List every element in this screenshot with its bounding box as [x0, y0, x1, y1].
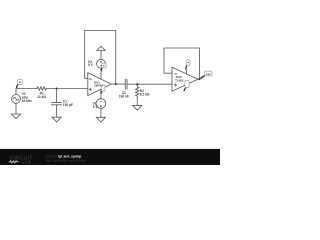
probe flag at OA1 V- pin	[100, 85, 105, 94]
op-amp OA1 triangle	[88, 73, 112, 96]
label OA2	[175, 75, 184, 82]
svg-text:30 kHz: 30 kHz	[22, 99, 33, 103]
wire C1 to ground	[56, 105, 58, 117]
label C2	[119, 91, 129, 98]
OA1 feedback wire	[85, 31, 116, 85]
wire V1 to R1	[16, 88, 37, 90]
svg-text:100 nF: 100 nF	[119, 94, 129, 98]
wire V2 bottom	[100, 108, 102, 117]
label C1	[63, 100, 73, 107]
svg-text:LM741: LM741	[94, 84, 103, 88]
OA1 plus input mark	[89, 88, 91, 90]
wire V3 top to supply arrow	[100, 50, 102, 59]
OA1 V+ supply pin wire	[100, 68, 102, 79]
svg-text:http://circuitlab.com/c79j426: http://circuitlab.com/c79j426	[46, 159, 87, 163]
svg-text:TL082: TL082	[175, 78, 184, 82]
op-amp OA2 triangle	[172, 67, 198, 91]
ground under C1	[52, 117, 61, 122]
node junction OA2 feedback/output	[198, 78, 200, 80]
probe balloon at OA2 V+ pin	[185, 60, 190, 70]
OA2 feedback wire	[164, 48, 199, 79]
label OA1	[94, 80, 103, 87]
wire R2 to ground	[136, 96, 138, 105]
wire R1 to OA1 plus input	[46, 88, 88, 90]
wire V1 bottom	[15, 103, 17, 114]
wire node to R2	[136, 84, 138, 87]
OA1 output wire to C2	[111, 83, 125, 85]
label R1	[37, 91, 46, 98]
ground under R2	[133, 105, 142, 110]
svg-text:8.2 kΩ: 8.2 kΩ	[140, 92, 150, 96]
wire V1 top	[15, 89, 17, 95]
OA2 minus input mark	[175, 73, 177, 75]
wire node to capacitor C1	[56, 89, 58, 103]
node junction OA1 feedback/output	[115, 83, 117, 85]
watermark bar	[0, 149, 220, 165]
probe balloon at V1 node	[16, 80, 23, 89]
ground under V2	[96, 117, 105, 122]
wire C2 to OA2 plus input	[127, 83, 172, 85]
probe flag at OA2 V- pin	[183, 81, 189, 92]
probe balloon at OA1 V+ pin	[101, 63, 107, 71]
OA1 minus input mark	[89, 78, 91, 80]
capacitor C1	[52, 103, 62, 105]
logo resistor zigzag	[9, 161, 19, 163]
label V1	[22, 92, 33, 103]
label R2	[140, 89, 150, 96]
label V3	[88, 60, 94, 67]
OA2 plus input mark	[175, 84, 177, 86]
svg-text:11 kΩ: 11 kΩ	[37, 95, 46, 99]
out net balloon at OA2 output	[200, 71, 212, 79]
node junction R1/C1	[56, 87, 58, 89]
label V2	[93, 101, 99, 108]
node junction C2/R2	[136, 83, 138, 85]
voltage source V3	[97, 59, 106, 68]
supply arrow above V3	[97, 46, 105, 50]
voltage source V2	[96, 99, 106, 109]
voltage source V1 (sine)	[12, 95, 21, 104]
svg-text:LAB: LAB	[22, 159, 31, 164]
OA1 V- supply pin wire	[100, 89, 102, 98]
OA2 V+ supply pin stub	[185, 71, 187, 74]
resistor R1	[37, 87, 46, 90]
OA2 output stub	[198, 78, 199, 80]
capacitor C2	[125, 79, 127, 89]
resistor R2	[136, 87, 139, 96]
ground under V1	[11, 114, 20, 119]
svg-text:100 pF: 100 pF	[63, 103, 73, 107]
svg-text:out: out	[206, 72, 211, 76]
